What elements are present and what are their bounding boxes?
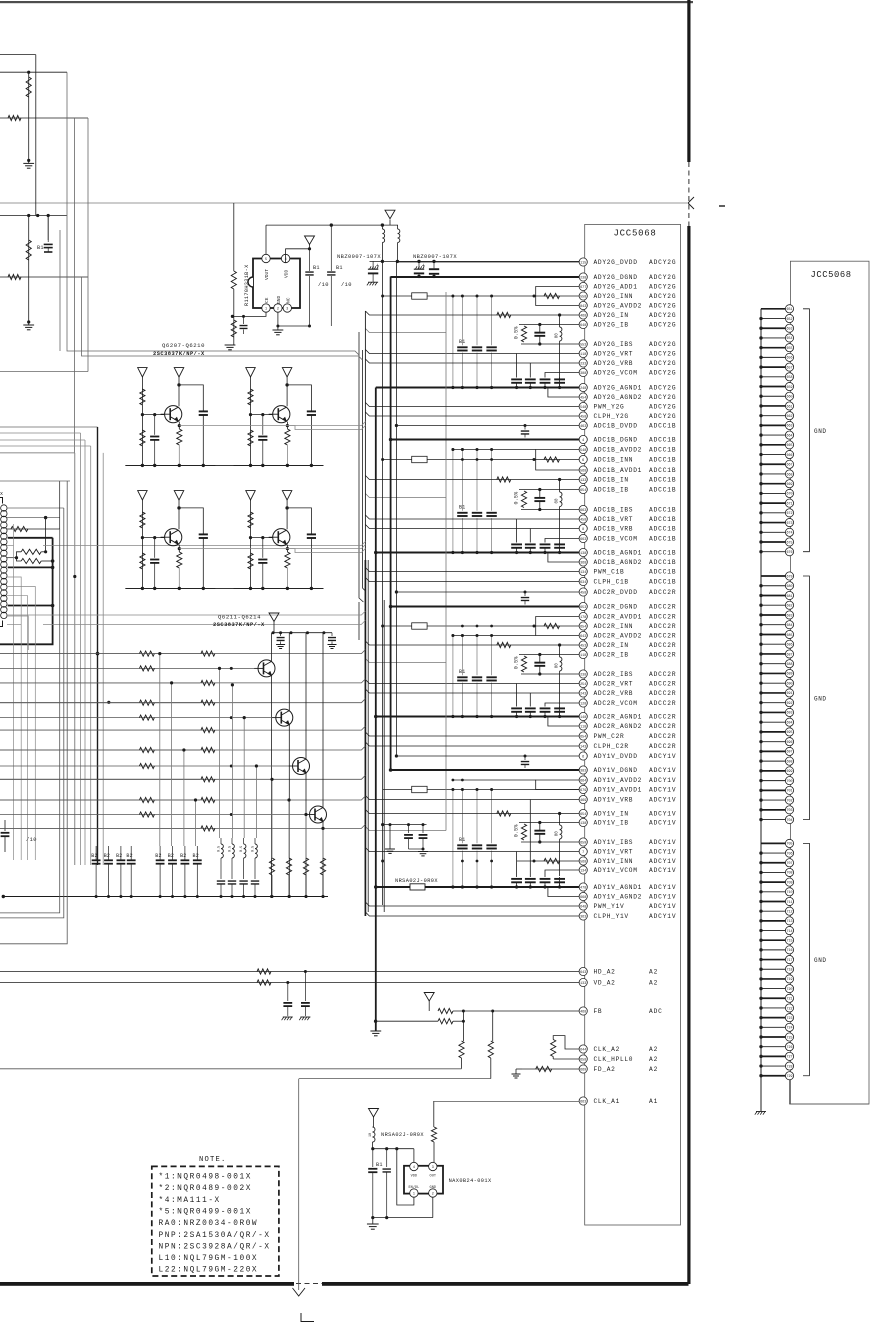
pin 8 ADC1B_VRB xyxy=(579,524,587,532)
junction ADY2G agnd xyxy=(543,386,546,389)
pin 695 xyxy=(785,728,793,736)
pin 657 xyxy=(785,363,793,371)
resistor cell 3 xyxy=(285,429,290,445)
wire top stub xyxy=(0,54,36,56)
capacitor B1 cell xyxy=(47,216,49,243)
pin 687 xyxy=(785,650,793,658)
svg-text:712: 712 xyxy=(786,910,792,914)
junction ladder b2 xyxy=(158,652,161,655)
svg-text:ADC2R_DGND: ADC2R_DGND xyxy=(594,604,638,611)
pin 654 PWM_C2R xyxy=(579,732,587,740)
svg-text:718: 718 xyxy=(786,969,792,973)
svg-text:ADCC2R: ADCC2R xyxy=(649,614,676,621)
svg-text:ADC2R_IBS: ADC2R_IBS xyxy=(594,671,634,678)
junction rail ADC1B xyxy=(490,448,493,451)
wire block v13 xyxy=(13,524,15,650)
svg-text:ADY2G_IB: ADY2G_IB xyxy=(594,322,629,329)
resistor ladder R xyxy=(201,797,215,802)
wire ADC1B cap4 v xyxy=(559,543,561,553)
svg-text:686: 686 xyxy=(786,644,792,648)
svg-text:ADCC1B: ADCC1B xyxy=(649,536,676,543)
wire ADY2G_IBS row xyxy=(521,343,579,345)
svg-text:ADCY1V: ADCY1V xyxy=(649,797,676,804)
junction rail inn ADY1V xyxy=(490,860,493,863)
resistor ADY1V 0.5% xyxy=(521,824,526,840)
wire cellrow bus join2 xyxy=(125,587,323,589)
junction pin 723 xyxy=(759,1016,762,1019)
capacitor cell div xyxy=(262,538,264,558)
wire ADY1V_VCOM row xyxy=(545,870,579,877)
wire cell emitter v xyxy=(286,545,288,552)
wire cell cap down xyxy=(310,415,312,465)
junction pin 655 xyxy=(759,346,762,349)
wire ADC2R_AGND1 row bold xyxy=(376,716,580,718)
wire pin 669 to GND bus xyxy=(761,483,786,485)
resistor cell 1 xyxy=(140,389,145,405)
junction pin 692 xyxy=(759,701,762,704)
wire pin 652 to GND bus xyxy=(761,318,786,320)
junction pin 664 xyxy=(759,433,762,436)
svg-text:/10: /10 xyxy=(341,282,352,288)
svg-text:ADY2G_AGND2: ADY2G_AGND2 xyxy=(594,394,643,401)
wire block vdown xyxy=(27,650,29,860)
inductor ADY1V xyxy=(560,825,562,839)
svg-text:ADY1V_AGND1: ADY1V_AGND1 xyxy=(594,884,643,891)
junction cell bus xyxy=(178,464,181,467)
pin 669 FD_A2 xyxy=(579,1065,587,1073)
svg-text:705: 705 xyxy=(786,843,792,847)
svg-text:ADY2G_AGND1: ADY2G_AGND1 xyxy=(594,385,643,392)
junction midcap xyxy=(381,823,384,826)
junction bank r xyxy=(271,895,274,898)
svg-text:726: 726 xyxy=(786,1046,792,1050)
pin 548 ADC1B_AVDD2 xyxy=(579,445,587,453)
junction pin 652 xyxy=(759,317,762,320)
wire NAX endl xyxy=(397,1149,414,1205)
transistor Q cell xyxy=(273,529,290,546)
capacitor B1 ADY2G xyxy=(457,346,467,348)
wire ADY2G_DGND bold xyxy=(391,276,580,278)
svg-text:ADCC2R: ADCC2R xyxy=(649,723,676,730)
junction pin 656 xyxy=(759,356,762,359)
resistor VD xyxy=(257,980,271,985)
wire ADY1V_ADD row xyxy=(383,789,580,791)
wire bus branch xyxy=(0,824,365,828)
pin 254 ADC2R_VRT xyxy=(579,679,587,687)
svg-text:710: 710 xyxy=(786,891,792,895)
resistor ladder R xyxy=(201,777,215,782)
svg-text:ADCY2G: ADCY2G xyxy=(649,312,676,319)
wire row long xyxy=(43,542,365,546)
wire pin 674 to GND bus xyxy=(761,531,786,533)
capacitor U1 ce xyxy=(243,316,245,324)
svg-text:ADCY1V: ADCY1V xyxy=(649,753,676,760)
capacitor B1 ADY1V xyxy=(486,844,496,846)
wire pin 666 to GND bus xyxy=(761,454,786,456)
wire pin 698 to GND bus xyxy=(761,760,786,762)
svg-text:699: 699 xyxy=(786,770,792,774)
wire ADY1V coil v xyxy=(559,814,561,826)
pin 659 xyxy=(785,382,793,390)
wire emitter row1 xyxy=(179,422,365,426)
wire conn row 4 xyxy=(7,545,14,547)
wire pin 697 to GND bus xyxy=(761,750,786,752)
wire left mid h xyxy=(0,371,88,373)
svg-text:ADY2G_VRT: ADY2G_VRT xyxy=(594,351,634,358)
svg-text:EN/DL: EN/DL xyxy=(409,1185,420,1190)
ground right bus xyxy=(756,1111,766,1113)
svg-text:3: 3 xyxy=(286,307,288,311)
pin 658 CLK_HPLL0 xyxy=(579,1055,587,1063)
inductor NAX xyxy=(373,1127,376,1142)
junction pin 694 xyxy=(759,720,762,723)
capacitor ADY1V vr xyxy=(525,878,536,880)
wire bus mid xyxy=(80,433,82,865)
svg-text:248: 248 xyxy=(580,387,586,391)
pin 664 ADY1V_AVDD2 xyxy=(579,776,587,784)
svg-text:669: 669 xyxy=(786,483,792,487)
junction rail inn ADC1B xyxy=(490,458,493,461)
wire ADY2G_IB row xyxy=(519,324,579,326)
svg-text:720: 720 xyxy=(786,988,792,992)
wire bus branch xyxy=(0,679,365,683)
ferrite bead ADY1V xyxy=(412,786,427,792)
wire ladder row xyxy=(0,799,200,801)
svg-text:VDD: VDD xyxy=(284,269,290,278)
svg-text:B1: B1 xyxy=(336,265,343,271)
junction ADY2G IN xyxy=(558,313,561,316)
junction pin 669 xyxy=(759,482,762,485)
wire pin 710 to GND bus xyxy=(761,891,786,893)
svg-text:ADCY2G: ADCY2G xyxy=(649,370,676,377)
svg-text:ADCC1B: ADCC1B xyxy=(649,579,676,586)
resistor ladder R xyxy=(201,680,215,685)
svg-text:2SC3837K/NP/-X: 2SC3837K/NP/-X xyxy=(153,351,205,357)
svg-text:669: 669 xyxy=(580,1068,586,1072)
svg-text:664: 664 xyxy=(786,434,792,438)
edge pin 20 xyxy=(1,612,7,618)
junction pin 687 xyxy=(759,652,762,655)
wire row long xyxy=(43,620,365,624)
svg-text:656: 656 xyxy=(786,357,792,361)
junction cell bus xyxy=(249,587,252,590)
wire pin 653 to GND bus xyxy=(761,327,786,329)
junction rail inn ADY1V xyxy=(461,860,464,863)
wire conn row b xyxy=(7,557,17,559)
wire pin 695 to GND bus xyxy=(761,731,786,733)
wire conn row 10 xyxy=(7,616,28,650)
junction cell collector xyxy=(285,506,288,509)
pin 148 ADC2R_AGND1 xyxy=(579,712,587,720)
edge pin 9 xyxy=(1,550,7,556)
junction diag rail xyxy=(306,631,309,634)
vcc cell triangle b xyxy=(174,491,184,500)
wire cell emitter v xyxy=(178,545,180,552)
svg-text:CLPH_C2R: CLPH_C2R xyxy=(594,743,629,750)
svg-text:B1: B1 xyxy=(37,245,44,251)
svg-text:118: 118 xyxy=(580,725,586,729)
svg-text:ADCY2G: ADCY2G xyxy=(649,385,676,392)
svg-text:634: 634 xyxy=(580,581,586,585)
svg-text:ADC: ADC xyxy=(649,1008,663,1015)
wire conn row 8 xyxy=(7,614,43,616)
wire VD_A2 row xyxy=(0,982,579,984)
pin 663 ADC1B_VCOM xyxy=(579,534,587,542)
junction pin 700 xyxy=(759,779,762,782)
junction cell bus xyxy=(202,587,205,590)
wire ADY2G_DVDD row xyxy=(396,261,579,263)
wire cell base xyxy=(142,414,164,416)
pin 686 xyxy=(785,640,793,648)
junction diag rail xyxy=(322,631,325,634)
ferrite bead ADC2R xyxy=(412,623,427,629)
wire Q6211 base xyxy=(0,667,255,669)
wire cell left v xyxy=(141,500,143,588)
wire trunk aux 368 xyxy=(367,560,369,912)
wire conn row 5 xyxy=(7,577,21,650)
wire ADC2R_AGND2 row xyxy=(548,717,580,727)
wire pin 657 to GND bus xyxy=(761,366,786,368)
wire cell emitter v xyxy=(178,422,180,429)
resistor cell 2 xyxy=(248,553,253,569)
wire DVDD feed xyxy=(370,260,580,262)
wire ADC1B_DVDD row xyxy=(396,425,579,427)
pin 558 ADY2G_INN xyxy=(579,292,587,300)
svg-text:651: 651 xyxy=(786,308,792,312)
wire cell bus xyxy=(125,464,215,466)
svg-text:RA0:NRZ0034-0R0W: RA0:NRZ0034-0R0W xyxy=(159,1220,259,1228)
pin 708 xyxy=(785,868,793,876)
wire ladder row xyxy=(0,749,200,751)
junction cell bus xyxy=(310,464,313,467)
resistor ladder R xyxy=(201,700,215,705)
junction cell bus xyxy=(178,587,181,590)
pin 663 CLK_A1 xyxy=(579,1097,587,1105)
capacitor ADY1V dvdd xyxy=(524,756,526,760)
pin 691 xyxy=(785,689,793,697)
capacitor B2 xyxy=(172,846,174,860)
wire vert stub xyxy=(35,55,37,216)
svg-text:B1: B1 xyxy=(459,669,465,675)
wire ADY2G ADD1 loop xyxy=(536,287,580,306)
wire rail ADY1V a xyxy=(452,790,454,888)
junction rail inn ADY1V xyxy=(476,860,479,863)
right border thick lower xyxy=(687,226,690,1284)
capacitor B1 ADC2R xyxy=(486,676,496,678)
junction pin 683 xyxy=(759,613,762,616)
junction rail ADC2R xyxy=(461,634,464,637)
pin 706 xyxy=(785,849,793,857)
wire rail ADC1B a xyxy=(452,450,454,553)
resistor ladder R xyxy=(201,651,215,656)
svg-text:NBZ0007-107X: NBZ0007-107X xyxy=(413,254,457,260)
resistor ADY1V INN b xyxy=(544,858,560,863)
edge pin 17 xyxy=(1,595,7,601)
junction pin 689 xyxy=(759,672,762,675)
svg-text:ADCC2R: ADCC2R xyxy=(649,604,676,611)
junction gnd xyxy=(27,159,30,162)
svg-text:B1: B1 xyxy=(313,265,320,271)
pin 670 xyxy=(785,489,793,497)
wire block v45 xyxy=(45,518,47,552)
wire Q6211 emitter xyxy=(271,675,273,896)
svg-text:644: 644 xyxy=(580,1048,586,1052)
svg-text:0.5: 0.5 xyxy=(229,846,233,852)
capacitor B1 ADC2R xyxy=(457,676,467,678)
wire fb row3 xyxy=(0,1068,462,1070)
wire pin 724 to GND bus xyxy=(761,1026,786,1028)
svg-text:654: 654 xyxy=(580,489,586,493)
capacitor ADY2G vr xyxy=(540,378,551,380)
svg-text:NRSA02J-0R0X: NRSA02J-0R0X xyxy=(381,1132,424,1138)
svg-text:717: 717 xyxy=(786,959,792,963)
svg-text:OUT: OUT xyxy=(430,1175,437,1179)
wire fb row4 xyxy=(299,1078,491,1080)
wire ladder v coil xyxy=(243,718,245,838)
capacitor ADC2R vr xyxy=(540,707,551,709)
wire ladder v coil xyxy=(219,668,221,838)
svg-text:1: 1 xyxy=(413,1192,415,1196)
svg-text:ADCC2R: ADCC2R xyxy=(649,642,676,649)
wire pin 723 to GND bus xyxy=(761,1017,786,1019)
IC U1 body xyxy=(253,259,300,309)
IC U1 pin 1 xyxy=(262,304,270,312)
svg-text:668: 668 xyxy=(786,473,792,477)
wire bus v5 xyxy=(47,216,49,241)
wire ADC1B_AGND1 row bold xyxy=(376,552,580,554)
pin 383 ADY1V_DGND xyxy=(579,766,587,774)
IC U1 pin 5 xyxy=(262,254,270,262)
svg-text:B1: B1 xyxy=(459,505,465,511)
pin 668 ADY1V_AGND2 xyxy=(579,892,587,900)
junction pin 661 xyxy=(759,404,762,407)
junction pin 727 xyxy=(759,1055,762,1058)
junction block xyxy=(15,556,18,559)
wire Q6213 emitter xyxy=(305,773,307,897)
pin 660 xyxy=(785,392,793,400)
wire ladder v res xyxy=(288,800,290,858)
wire rail ADC2R xyxy=(461,636,463,676)
svg-text:VDD: VDD xyxy=(411,1175,417,1179)
svg-text:10: 10 xyxy=(369,1133,373,1137)
wire midcap v xyxy=(389,825,391,849)
wire bus branch xyxy=(0,796,365,800)
wire rail ADY2G xyxy=(461,296,463,345)
svg-text:ADCY2G: ADCY2G xyxy=(649,360,676,367)
wire bus branch xyxy=(0,650,365,654)
wire block vdown xyxy=(13,650,15,860)
edge pin 16 xyxy=(1,590,7,596)
pin 656 xyxy=(785,353,793,361)
svg-text:2: 2 xyxy=(432,1192,434,1196)
wire ADY2G_INN row xyxy=(383,295,580,297)
svg-text:ADCY2G: ADCY2G xyxy=(649,284,676,291)
resistor ADC1B 0.5% xyxy=(521,491,526,508)
wire ADY1V feeder xyxy=(365,827,446,831)
junction pin 715 xyxy=(759,939,762,942)
edge pin 8 xyxy=(1,544,7,550)
svg-text:A1: A1 xyxy=(649,1098,658,1105)
svg-text:469: 469 xyxy=(580,799,586,803)
pin 698 xyxy=(785,757,793,765)
junction cell bus xyxy=(261,464,264,467)
wire ADY1V cap4 v xyxy=(559,877,561,887)
connector JCC5068 right box xyxy=(790,261,869,1104)
wire conn row 7 xyxy=(7,596,28,650)
wire bus v6 xyxy=(59,230,61,351)
svg-text:B2: B2 xyxy=(180,853,186,859)
junction pin 716 xyxy=(759,948,762,951)
svg-text:388: 388 xyxy=(580,372,586,376)
junction bank xyxy=(220,895,223,898)
wire pin 729 to GND bus xyxy=(761,1075,786,1077)
svg-text:ADY2G_AVDD2: ADY2G_AVDD2 xyxy=(594,303,643,310)
inductor ADC2R xyxy=(560,657,562,671)
wire ADY2G_VRB row xyxy=(365,359,579,363)
wire NAX gnd pin xyxy=(432,1197,434,1217)
wire pin 717 to GND bus xyxy=(761,959,786,961)
vcc cell triangle a xyxy=(246,368,256,377)
junction pin 698 xyxy=(759,759,762,762)
wire cellrow bus join xyxy=(125,464,323,466)
svg-text:713: 713 xyxy=(786,920,792,924)
junction pin 690 xyxy=(759,681,762,684)
wire pin 655 to GND bus xyxy=(761,347,786,349)
vcc cell triangle a xyxy=(138,491,148,500)
pin 453 ADC2R_IN xyxy=(579,641,587,649)
pin 651 xyxy=(785,305,793,313)
svg-text:683: 683 xyxy=(786,614,792,618)
junction pin 709 xyxy=(759,880,762,883)
capacitor B1 ADC1B xyxy=(486,512,496,514)
pin 568 ADY1V_INN xyxy=(579,857,587,865)
pin 654 ADC1B_IB xyxy=(579,485,587,493)
junction VDD xyxy=(308,247,311,250)
wire Q6213 base xyxy=(0,765,289,767)
svg-text:701: 701 xyxy=(786,790,792,794)
pin 702 xyxy=(785,796,793,804)
ferrite bead ADC1B xyxy=(412,456,427,462)
edge pin 7 xyxy=(1,539,7,545)
pin 719 xyxy=(785,975,793,983)
pin 458 ADC1B_VRT xyxy=(579,515,587,523)
wire NAX vdd xyxy=(413,1149,415,1162)
svg-text:ADY1V_VRB: ADY1V_VRB xyxy=(594,797,634,804)
block bold row xyxy=(8,566,53,568)
junction FB xyxy=(462,1010,465,1013)
capacitor ADY2G vr xyxy=(525,378,536,380)
junction pin 653 xyxy=(759,327,762,330)
resistor bank xyxy=(320,858,325,875)
svg-text:687: 687 xyxy=(786,653,792,657)
junction bank r xyxy=(305,895,308,898)
svg-text:118: 118 xyxy=(580,353,586,357)
pin 685 xyxy=(785,630,793,638)
junction ADY1V agnd xyxy=(529,885,532,888)
wire FB2 join xyxy=(462,1011,464,1021)
junction pin 665 xyxy=(759,443,762,446)
svg-text:654: 654 xyxy=(580,625,586,629)
svg-text:663: 663 xyxy=(786,425,792,429)
vcc cell triangle a xyxy=(138,368,148,377)
wire trunk bus 382 xyxy=(382,261,384,905)
bottom border thick left xyxy=(0,1282,294,1286)
wire ADY1V_IN row xyxy=(365,810,579,814)
svg-text:L22:NQL79GM-220X: L22:NQL79GM-220X xyxy=(159,1267,259,1275)
corner mark bottom xyxy=(301,1313,314,1322)
wire FB vcc xyxy=(428,1001,430,1011)
junction pin 720 xyxy=(759,987,762,990)
